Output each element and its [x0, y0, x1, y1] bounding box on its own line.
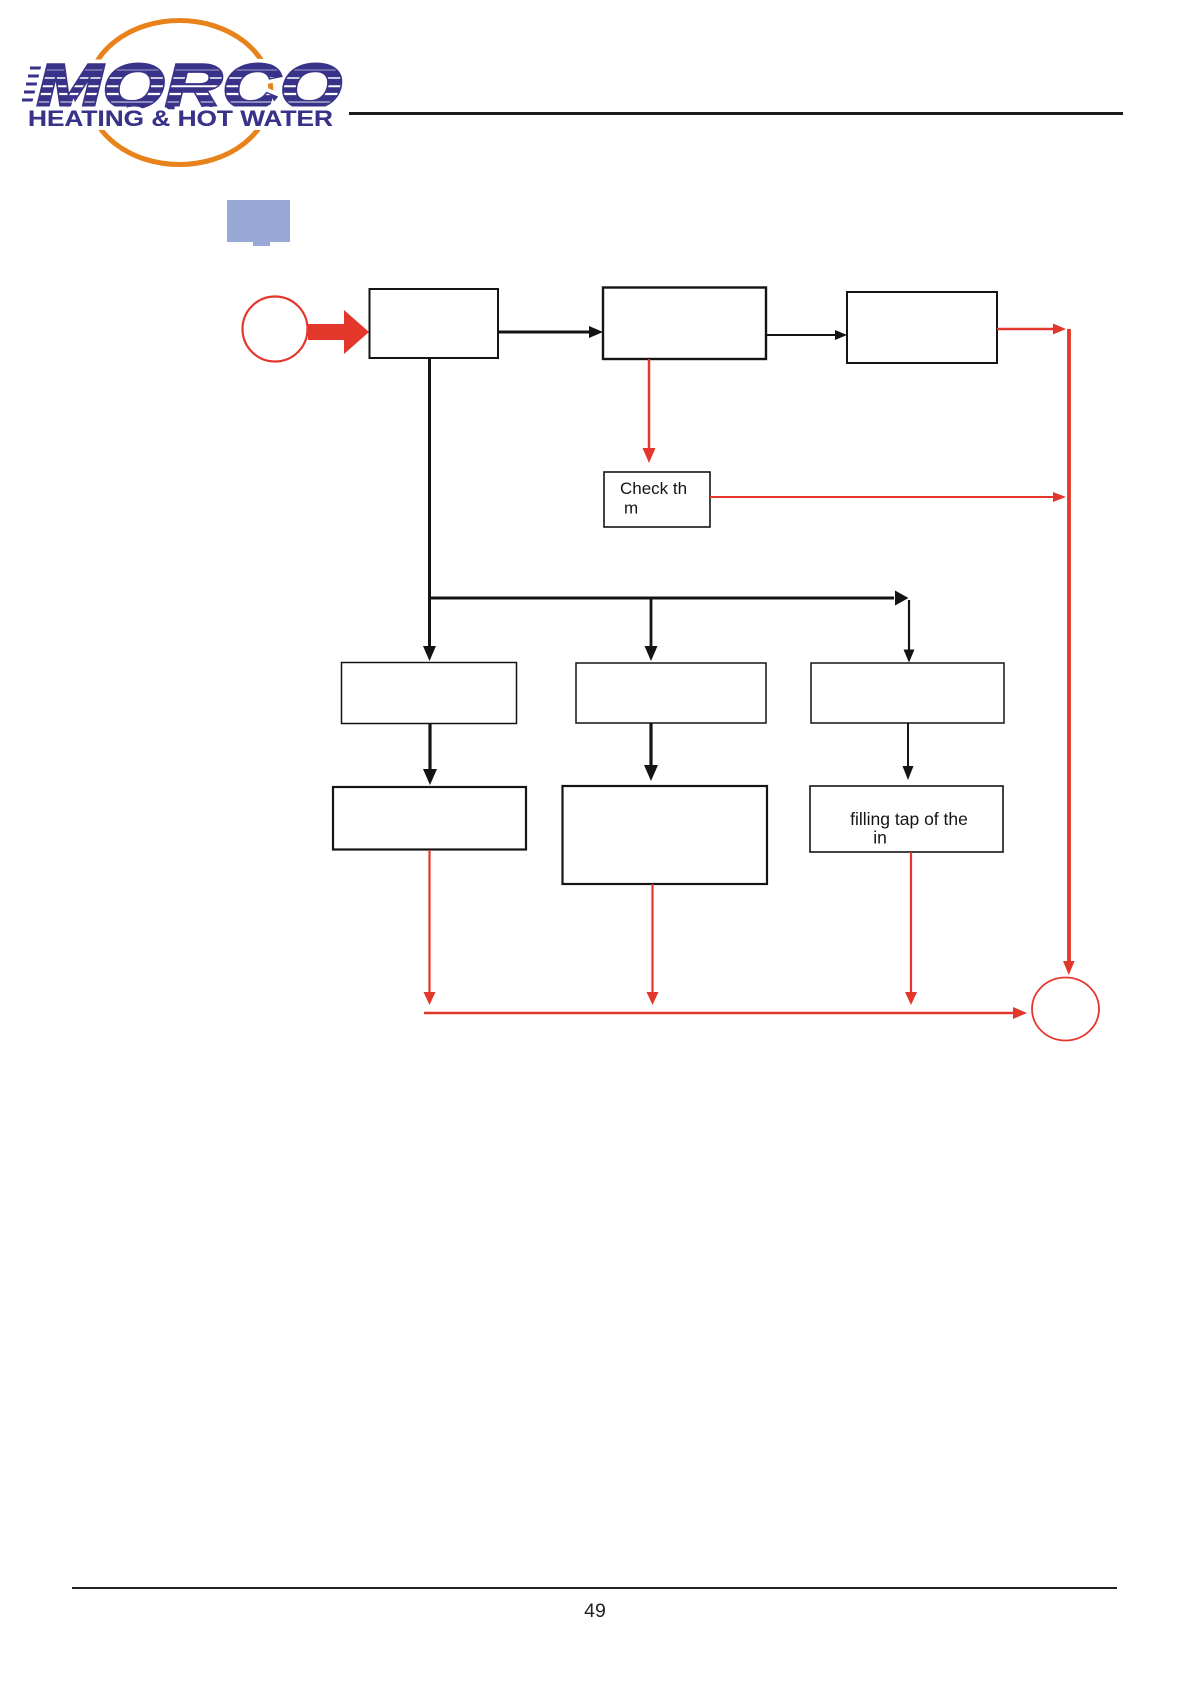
- box B: [576, 663, 766, 723]
- svg-text:m: m: [624, 499, 638, 518]
- box C: [811, 663, 1004, 723]
- logo white stripes: [10, 70, 348, 102]
- blue heading block tab: [253, 242, 270, 246]
- big red start arrow: [308, 310, 369, 354]
- box A: [342, 663, 517, 724]
- box 3: [847, 292, 997, 363]
- red collector line: [424, 1012, 1014, 1015]
- red line check box to rail: [710, 496, 1054, 498]
- red drop from D: [428, 850, 430, 994]
- footer rule: [72, 1587, 1117, 1589]
- box D: [333, 787, 526, 850]
- start circle: [243, 297, 308, 362]
- logo ellipse: [88, 21, 271, 165]
- red drop from F: [910, 852, 912, 994]
- arrow box1 to box2: [498, 331, 590, 334]
- box 1: [370, 289, 499, 358]
- page number: [0, 1600, 1190, 1623]
- header rule: [349, 112, 1123, 115]
- blue heading block: [227, 200, 290, 242]
- black distribution line: [428, 597, 894, 600]
- MORCO logo: [0, 0, 380, 190]
- end circle: [1032, 978, 1099, 1041]
- drop arrow right: [908, 600, 910, 650]
- red drop from E: [651, 884, 653, 994]
- svg-text:Check th: Check th: [620, 479, 687, 498]
- red arrow box2 down: [648, 359, 651, 449]
- arrow box2 to box3: [766, 334, 836, 336]
- arrow A to D: [428, 724, 431, 770]
- arrow B to E: [649, 723, 652, 766]
- box F: [810, 786, 1003, 852]
- black line box1 down: [428, 358, 431, 600]
- drop arrow left: [428, 598, 431, 647]
- box E: [563, 786, 768, 884]
- box 2: [603, 288, 766, 360]
- drop arrow middle: [650, 598, 653, 647]
- arrow C to F: [907, 723, 909, 767]
- svg-text:in: in: [873, 828, 887, 848]
- flowchart svg: [0, 0, 1190, 1100]
- logo speed lines: [22, 68, 60, 100]
- red right rail: [1067, 329, 1071, 961]
- red arrow box3 to right rail: [997, 328, 1054, 331]
- svg-text:filling tap of the: filling tap of the: [850, 809, 968, 829]
- check box: [604, 472, 710, 527]
